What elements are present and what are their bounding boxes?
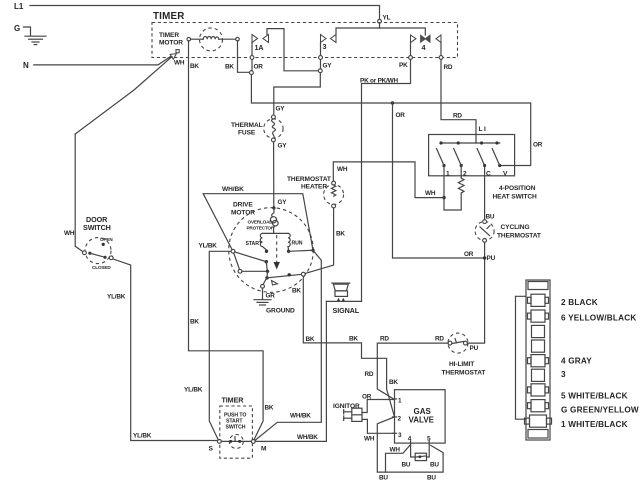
svg-text:TIMER: TIMER — [222, 396, 245, 405]
wire PU cycling thermostat to hi-limit — [467, 242, 484, 343]
wire BK from coil right down to OR node — [238, 41, 250, 73]
svg-text:2: 2 — [398, 416, 402, 423]
wire L1 — [30, 6, 380, 29]
svg-text:GY: GY — [278, 199, 288, 206]
wire 1A left stem (OR) — [251, 43, 253, 71]
svg-text:1: 1 — [446, 171, 450, 178]
ground chassis symbol — [25, 36, 46, 44]
cycling thermostat S4 — [484, 168, 486, 220]
svg-text:CYCLING: CYCLING — [501, 224, 530, 231]
svg-text:RD: RD — [444, 64, 453, 71]
resistor R1 below heat switch terminal 2 — [460, 166, 462, 179]
svg-text:TIMER: TIMER — [153, 11, 184, 22]
wire 1A right to contact 3 left (GY link) — [267, 29, 319, 71]
svg-text:BK: BK — [225, 64, 234, 71]
svg-text:WH/BK: WH/BK — [290, 413, 311, 420]
svg-text:WH: WH — [174, 60, 185, 67]
svg-text:L1: L1 — [14, 2, 24, 11]
wire N — [34, 55, 173, 65]
svg-text:BK: BK — [292, 288, 301, 295]
svg-text:DRIVE: DRIVE — [233, 202, 253, 209]
svg-text:GROUND: GROUND — [266, 308, 295, 315]
svg-text:BK: BK — [190, 63, 199, 70]
svg-text:3: 3 — [561, 370, 566, 379]
svg-text:BK: BK — [389, 379, 398, 386]
svg-text:G GREEN/YELLOW: G GREEN/YELLOW — [561, 405, 639, 414]
flame switch between pins 4 and 5 — [411, 445, 416, 457]
wire WH/BK from motor right edge down to push-to-start M — [255, 250, 321, 440]
svg-text:VALVE: VALVE — [409, 416, 435, 425]
svg-text:BU: BU — [427, 474, 436, 480]
svg-text:BU: BU — [402, 462, 411, 469]
wire 4 left stem (PK) — [410, 43, 412, 58]
connector plug body — [526, 280, 550, 440]
svg-text:THERMOSTAT: THERMOSTAT — [287, 176, 331, 183]
connector bottom cap — [528, 430, 548, 439]
svg-text:MOTOR: MOTOR — [231, 210, 255, 217]
gas valve box — [395, 390, 446, 443]
svg-text:YL/BK: YL/BK — [133, 433, 152, 440]
svg-text:WH/BK: WH/BK — [297, 434, 318, 441]
svg-text:6 YELLOW/BLACK: 6 YELLOW/BLACK — [561, 314, 636, 323]
svg-text:C: C — [486, 171, 491, 178]
wire WH heat switch terminal 1 to thermostat heater — [442, 196, 445, 199]
svg-text:BK: BK — [265, 405, 274, 412]
centrifugal switch blade — [265, 276, 268, 279]
drive motor outline (quadrilateral) — [203, 194, 313, 251]
svg-text:WH: WH — [337, 166, 348, 173]
svg-text:BK: BK — [306, 336, 315, 343]
wire WH gas valve pin 4 — [386, 445, 410, 472]
svg-text:WH: WH — [364, 436, 375, 443]
svg-text:OR: OR — [254, 64, 264, 71]
svg-text:PU: PU — [487, 255, 496, 262]
svg-text:THERMOSTAT: THERMOSTAT — [442, 370, 486, 377]
svg-text:1: 1 — [398, 398, 402, 405]
svg-text:IGNITOR: IGNITOR — [333, 403, 360, 410]
svg-text:PROTECTOR: PROTECTOR — [247, 226, 275, 231]
wire 3 right stem to top rail — [336, 28, 425, 35]
svg-text:PU: PU — [470, 345, 479, 352]
svg-text:BK: BK — [349, 336, 358, 343]
wire RD hi-limit to gas valve pin 1 — [377, 343, 448, 399]
svg-text:WH: WH — [64, 230, 75, 237]
motor ground — [263, 280, 266, 285]
svg-text:MOTOR: MOTOR — [159, 40, 183, 47]
svg-text:WH/BK: WH/BK — [222, 186, 244, 193]
wire GY fuse to motor — [273, 142, 275, 208]
gas valve pin ticks — [393, 398, 397, 400]
svg-text:1A: 1A — [255, 43, 264, 52]
wire coil right — [219, 38, 236, 40]
svg-text:2: 2 — [463, 171, 467, 178]
svg-text:OPEN: OPEN — [100, 237, 113, 242]
wire G stub — [24, 27, 31, 36]
4-position heat switch S3 — [429, 135, 515, 176]
timer motor coil M1 — [200, 28, 223, 51]
hi-limit thermostat S5 — [448, 333, 468, 353]
svg-text:BK: BK — [336, 231, 345, 238]
svg-text:RD: RD — [365, 371, 374, 378]
wire 3 left stem — [320, 43, 322, 69]
svg-text:THERMOSTAT: THERMOSTAT — [497, 233, 541, 240]
svg-text:OR: OR — [533, 142, 543, 149]
svg-text:BU: BU — [379, 474, 388, 480]
svg-text:G: G — [14, 24, 20, 33]
svg-text:BK: BK — [190, 319, 199, 326]
wire OR from 1A down and across to heat switch V — [251, 75, 530, 166]
svg-text:SWITCH: SWITCH — [83, 223, 111, 232]
svg-text:THERMAL: THERMAL — [231, 122, 263, 129]
svg-text:OVERLOAD: OVERLOAD — [248, 220, 274, 225]
wire YL/BK door switch to push-to-start S — [113, 259, 218, 441]
svg-text:HEATER: HEATER — [301, 184, 327, 191]
wire 4 right stem (RD) — [440, 43, 442, 58]
svg-text:RD: RD — [380, 336, 389, 343]
wire OR branch down to cycling thermostat junction — [393, 103, 483, 258]
contact 1A — [252, 35, 258, 43]
svg-text:SWITCH: SWITCH — [226, 425, 246, 431]
svg-text:YL/BK: YL/BK — [107, 294, 126, 301]
svg-text:OR: OR — [362, 394, 372, 401]
svg-text:4 GRAY: 4 GRAY — [561, 357, 592, 366]
wire BK timer motor left, long vertical down to push-to-start M — [189, 41, 264, 440]
svg-text:PK or PK/WH: PK or PK/WH — [360, 78, 399, 85]
svg-text:SIGNAL: SIGNAL — [333, 306, 360, 315]
svg-text:RD: RD — [453, 113, 462, 120]
svg-text:HI-LIMIT: HI-LIMIT — [449, 361, 474, 368]
svg-text:L I: L I — [479, 126, 487, 133]
wire PK or PK/WH from contact 4 to signal — [362, 59, 411, 301]
svg-text:WH: WH — [425, 190, 436, 197]
svg-text:3: 3 — [398, 432, 402, 439]
svg-text:GY: GY — [323, 63, 333, 70]
signal buzzer — [332, 282, 350, 284]
svg-text:M: M — [261, 446, 267, 453]
svg-text:4: 4 — [422, 43, 426, 52]
svg-text:HEAT SWITCH: HEAT SWITCH — [493, 194, 538, 201]
svg-text:GY: GY — [276, 106, 286, 113]
wire GY from contact 3 node to thermal fuse — [274, 73, 321, 114]
svg-text:CLOSED: CLOSED — [92, 265, 111, 270]
drive motor circle (dashed) — [229, 208, 314, 293]
svg-text:RUN: RUN — [292, 241, 303, 247]
svg-text:2 BLACK: 2 BLACK — [561, 298, 598, 307]
svg-text:3: 3 — [323, 42, 327, 51]
svg-text:GY: GY — [278, 143, 288, 150]
svg-text:OR: OR — [396, 112, 406, 119]
motor internal nodes and links — [265, 250, 268, 253]
timer box (dashed) — [152, 23, 458, 58]
svg-text:YL/BK: YL/BK — [184, 387, 203, 394]
contact 4 — [411, 35, 417, 43]
wire signal bus — [326, 300, 361, 302]
wire OR ignitor to gas valve pin 1 — [362, 400, 395, 413]
wire BU gas valve pin 2 to pin 5 — [377, 417, 443, 472]
svg-text:YL/BK: YL/BK — [199, 243, 218, 250]
centrifugal actuator dashed arrow — [276, 235, 278, 262]
svg-text:FUSE: FUSE — [238, 130, 256, 137]
wire WH from timer to door switch — [75, 134, 83, 252]
wire WH/BK from push-to-start M to signal — [255, 301, 326, 441]
wire BK heater to motor switch — [305, 208, 334, 274]
svg-text:1 WHITE/BLACK: 1 WHITE/BLACK — [561, 420, 628, 429]
wire RD from contact 4 to heat switch L1 — [441, 59, 476, 143]
timer WH terminal arrow — [176, 50, 179, 53]
contact 3 — [321, 35, 327, 43]
connector bracket — [516, 296, 527, 419]
motor windings rail — [263, 232, 289, 234]
wire BK motor switch down to gas valve area — [303, 276, 394, 417]
svg-text:5: 5 — [427, 436, 431, 443]
svg-text:N: N — [23, 61, 29, 70]
svg-text:RD: RD — [435, 336, 444, 343]
svg-text:OR: OR — [464, 251, 474, 258]
connector top cap — [528, 282, 548, 290]
wire YL/BK motor to push-to-start S — [209, 251, 231, 440]
svg-text:BU: BU — [430, 462, 439, 469]
svg-text:5 WHITE/BLACK: 5 WHITE/BLACK — [561, 392, 628, 401]
svg-text:GR: GR — [266, 293, 276, 300]
svg-text:S: S — [209, 446, 214, 453]
connector cells — [525, 294, 552, 427]
svg-text:PK: PK — [399, 62, 408, 69]
svg-text:4-POSITION: 4-POSITION — [499, 185, 536, 192]
svg-text:TIMER: TIMER — [159, 32, 179, 39]
svg-text:BU: BU — [486, 214, 495, 221]
svg-text:YL: YL — [383, 15, 391, 22]
wire WH ignitor to gas valve pin 3 — [362, 419, 395, 433]
svg-text:V: V — [503, 171, 508, 178]
wire coil left — [191, 38, 204, 40]
svg-text:WH: WH — [390, 447, 401, 454]
